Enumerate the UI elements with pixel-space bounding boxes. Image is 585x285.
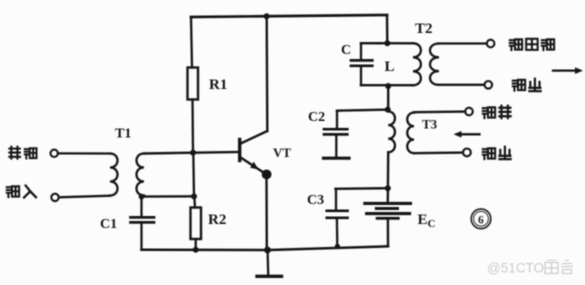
node tank bottom junction	[385, 83, 391, 89]
wire T2 secondary top	[439, 42, 487, 44]
ground	[257, 250, 282, 276]
wire R1 bottom lead	[191, 100, 194, 153]
svg-text:C: C	[428, 218, 436, 230]
node C3 junction	[385, 185, 391, 191]
svg-text:C2: C2	[308, 110, 325, 125]
label shuru (input)	[7, 186, 19, 197]
node R2 top junction	[191, 193, 197, 199]
svg-text:R2: R2	[208, 212, 226, 228]
label shuchu (output)	[513, 80, 525, 91]
wire R1 top lead	[191, 17, 192, 68]
terminal AM out bottom	[485, 81, 493, 89]
wire T1 primary bottom	[59, 196, 110, 198]
capacitor C (tank)	[341, 43, 372, 85]
svg-text:T3: T3	[422, 117, 438, 132]
svg-text:T2: T2	[415, 21, 433, 37]
node tank top junction	[384, 40, 390, 46]
label xinhao (signal)	[483, 148, 495, 159]
terminal carrier-in bottom	[51, 194, 58, 201]
capacitor C2	[308, 110, 349, 158]
transformer T2 secondary coil	[430, 44, 439, 85]
svg-text:T1: T1	[115, 127, 131, 142]
svg-text:C1: C1	[100, 217, 117, 232]
watermark	[487, 260, 573, 276]
node collector junction	[264, 13, 270, 19]
label tiaozhi (modulation)	[483, 107, 495, 118]
node C2/T3 junction	[385, 107, 391, 113]
wire base node	[144, 152, 240, 154]
wire C2 top	[337, 110, 388, 111]
wire R2 leads	[194, 196, 195, 249]
resistor R2	[191, 208, 202, 240]
transformer T3 secondary coil	[407, 113, 414, 154]
T1 secondary coil	[137, 154, 145, 196]
wire tank bottom	[361, 84, 413, 86]
svg-text:C3: C3	[307, 193, 324, 208]
T1 primary coil	[110, 154, 118, 196]
resistor R1	[188, 68, 199, 100]
terminal carrier-in top	[51, 150, 58, 157]
svg-text:6: 6	[478, 214, 484, 226]
arrow output right	[553, 67, 583, 74]
node base/R1R2 junction	[190, 150, 196, 156]
wire tank bottom to T3 node	[387, 86, 389, 110]
capacitor C3	[307, 189, 348, 249]
wire T3 secondary bottom	[414, 151, 463, 154]
wire T3 secondary top	[414, 110, 465, 113]
svg-text:E: E	[418, 212, 428, 228]
transistor VT	[240, 16, 292, 250]
capacitor C1	[100, 197, 154, 250]
wire tank top	[361, 42, 413, 44]
wire lower node	[142, 195, 195, 198]
arrow modulation left	[454, 131, 480, 138]
circled figure number 6	[471, 209, 491, 229]
svg-text:@51CTO: @51CTO	[487, 261, 544, 276]
inductor L (T2 primary)	[413, 43, 421, 85]
label zaibo (carrier)	[9, 147, 20, 159]
svg-text:C: C	[341, 43, 351, 58]
terminal AM out top	[487, 40, 495, 48]
svg-text:R1: R1	[209, 77, 227, 93]
wire right vertical top	[386, 15, 389, 43]
transformer T3 primary coil	[388, 112, 395, 153]
svg-text:VT: VT	[273, 145, 291, 160]
wire R2 top lead	[192, 153, 195, 197]
wire T2 secondary bottom	[439, 84, 484, 86]
terminal modulation bottom	[463, 149, 471, 157]
wire C3 top	[336, 187, 388, 190]
wire battery bottom lead	[387, 219, 390, 246]
terminal modulation top	[465, 108, 473, 116]
node emitter/rail junction	[264, 247, 271, 254]
node R2 bottom junction	[193, 247, 199, 253]
battery EC	[365, 203, 436, 230]
wire bottom rail	[142, 246, 389, 250]
node C1 junction	[139, 194, 145, 200]
wire top rail	[191, 15, 387, 17]
wire T1 primary top	[58, 152, 110, 154]
label tiaofubo (AM wave)	[510, 39, 522, 50]
svg-text:L: L	[385, 59, 395, 75]
wire T3 primary bottom lead	[387, 152, 390, 202]
